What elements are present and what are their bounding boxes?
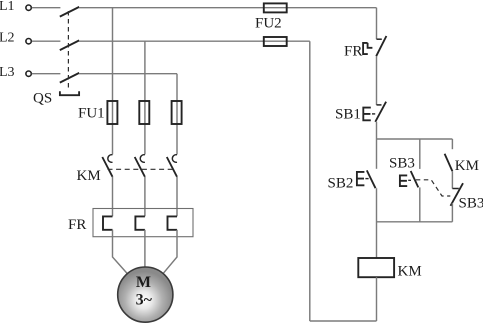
wire bottom return (310, 320, 377, 322)
relay FR trip symbol (363, 43, 372, 54)
svg-text:SB3: SB3 (389, 156, 415, 172)
wire FR to SB1 (376, 56, 378, 105)
motor M circle (118, 267, 173, 322)
contactor KM main contact 2 arc (140, 155, 145, 163)
fuse FU1 pole 1 (107, 101, 117, 124)
wire phase C to motor (163, 230, 177, 273)
svg-text:FU2: FU2 (255, 16, 282, 32)
switch QS linkage dashed (67, 11, 69, 91)
wire bottom rail (377, 221, 453, 223)
contactor KM main contact 3 arc (172, 155, 177, 163)
coil KM box (358, 258, 394, 277)
wire SB1 to rail (376, 122, 378, 139)
contactor KM main contact 2 blade (135, 157, 145, 177)
wire L3 to QS (32, 73, 61, 75)
button SB1 actuator dash (372, 113, 375, 115)
relay FR heater 3 (168, 216, 178, 229)
fuse FU1 pole 2 (139, 101, 149, 124)
fuse FU1 pole 3 (172, 101, 182, 124)
wire L2 bus (79, 40, 310, 42)
svg-text:SB3: SB3 (459, 196, 483, 212)
wire phase B to motor (144, 230, 146, 267)
contactor KM main contact 3 blade (167, 157, 177, 177)
wire SB3 branch top (419, 139, 421, 169)
svg-text:L1: L1 (0, 0, 15, 14)
button SB2 NO blade (367, 170, 376, 188)
contactor KM main contact 1 arc (108, 155, 113, 163)
switch QS blade pole 2 (60, 40, 79, 50)
wire phase B mid (144, 177, 146, 217)
fuse FU2 pole 1 (264, 3, 287, 12)
button SB1 NC tick (377, 104, 382, 106)
svg-text:L2: L2 (0, 30, 15, 45)
svg-text:L3: L3 (0, 65, 15, 80)
wire phase C drop (176, 74, 178, 155)
wire L3 bus (79, 73, 177, 75)
wire KM to SB3 NC (451, 171, 453, 188)
button SB2 actuator dash (365, 178, 368, 180)
wire L2 to QS (32, 40, 61, 42)
svg-text:KM: KM (455, 158, 479, 174)
contactor KM linkage dashed (108, 168, 175, 170)
wire control main drop (376, 8, 378, 40)
switch QS blade pole 1 (60, 7, 79, 17)
svg-text:FR: FR (68, 217, 86, 233)
fuse FU2 pole 2 (264, 37, 287, 46)
contact KM NO blade (445, 154, 453, 171)
svg-text:QS: QS (33, 91, 52, 107)
linkage SB3 dashed (416, 180, 451, 196)
svg-text:M: M (136, 274, 151, 291)
button SB3 NC blade (451, 183, 464, 206)
button SB3 NC tick (452, 188, 458, 190)
wire phase A mid (112, 177, 114, 217)
switch QS blade pole 3 (60, 73, 79, 83)
svg-text:KM: KM (398, 264, 422, 280)
svg-text:FU1: FU1 (78, 106, 105, 122)
terminal L3 (26, 71, 31, 76)
button SB3 NO blade (411, 171, 419, 187)
contactor KM main contact 1 blade (102, 157, 112, 177)
wire L1 bus (79, 7, 377, 9)
button SB1 NC blade (375, 102, 386, 122)
button SB3 actuator dash (408, 179, 411, 181)
relay FR heater 1 (103, 216, 113, 229)
svg-text:SB2: SB2 (328, 176, 354, 192)
contact FR NC tick (377, 38, 382, 40)
terminal L2 (26, 39, 31, 44)
svg-text:FR: FR (344, 44, 362, 60)
button SB1 actuator E (363, 108, 371, 121)
button SB2 actuator E (357, 172, 365, 185)
wire L1 to QS (32, 7, 61, 9)
wire KM branch top (451, 139, 453, 149)
relay FR heater 2 (135, 216, 145, 229)
wire SB3 branch bottom (419, 187, 421, 221)
relay FR box (93, 209, 193, 237)
wire phase A to motor (113, 230, 128, 274)
wire phase A drop (112, 8, 114, 155)
wire rail to SB2 (376, 139, 378, 169)
wire phase B drop (144, 41, 146, 154)
button SB3 actuator E (400, 175, 407, 186)
wire coil to bottom (376, 277, 378, 321)
svg-text:3~: 3~ (136, 292, 153, 309)
terminal L1 (26, 5, 31, 10)
svg-text:KM: KM (77, 168, 101, 184)
wire left return riser (309, 41, 311, 321)
svg-text:SB1: SB1 (335, 107, 361, 123)
wire SB2 down (376, 188, 378, 258)
wire top rail (377, 138, 453, 140)
switch QS handle (60, 91, 79, 95)
wire SB3 NC down (451, 203, 453, 222)
wire phase C mid (176, 177, 178, 217)
contact FR NC blade (376, 36, 386, 56)
